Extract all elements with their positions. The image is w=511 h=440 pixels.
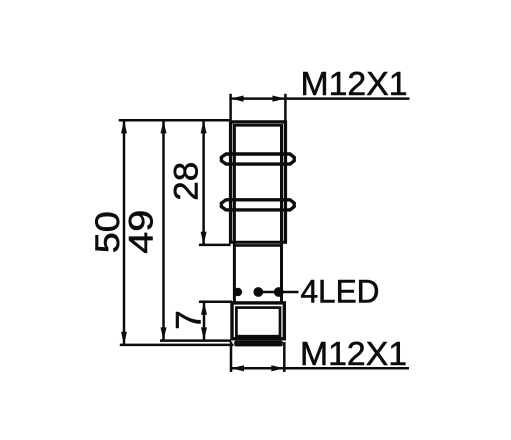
svg-text:M12X1: M12X1	[301, 65, 408, 102]
top dim arrow left	[231, 96, 244, 102]
lock nut 2	[221, 200, 294, 210]
top width dimension extension line left	[229, 94, 232, 121]
connector end cap (filled)	[234, 341, 283, 347]
bottom width dimension line with leader to M12X1	[231, 367, 409, 370]
LED dot left	[234, 288, 242, 296]
svg-text:49: 49	[123, 210, 161, 254]
dimension line 50	[123, 120, 126, 345]
dimension line 7	[203, 302, 206, 341]
bottom extension line for 28	[199, 244, 231, 247]
dimension line 28	[202, 120, 205, 245]
barrel outer right line	[284, 120, 287, 243]
barrel outer left line	[229, 120, 232, 243]
svg-text:28: 28	[168, 162, 206, 201]
4LED leader line	[258, 291, 298, 293]
thread end line	[229, 241, 287, 244]
49 arrow up	[161, 120, 167, 133]
top extension line for 50 49 28	[119, 119, 231, 122]
connector hex outer box	[232, 303, 284, 339]
svg-text:4LED: 4LED	[301, 274, 380, 310]
7 arrow up	[201, 302, 207, 315]
lock nut 1	[221, 154, 294, 164]
bottom width dimension extension line right	[283, 342, 286, 372]
top width dimension extension line right	[284, 94, 287, 121]
svg-text:7: 7	[169, 310, 208, 329]
bottom dim arrow right	[271, 365, 284, 371]
connector hex inner box	[236, 308, 280, 337]
28 arrow down	[201, 232, 207, 245]
top extension line for 7	[199, 300, 232, 303]
svg-text:50: 50	[89, 211, 127, 253]
LED dot middle	[253, 287, 263, 297]
bottom dim arrow left	[231, 365, 244, 371]
bottom extension line for 50	[120, 344, 234, 347]
thread minor / body right line	[280, 124, 283, 304]
50 arrow down	[121, 332, 127, 345]
bottom width dimension extension line left	[230, 342, 233, 373]
barrel top chamfer line	[233, 124, 282, 127]
50 arrow up	[121, 120, 127, 133]
7 arrow down	[201, 327, 207, 340]
LED dot right	[274, 287, 284, 297]
svg-text:M12X1: M12X1	[300, 335, 407, 372]
49 arrow down	[161, 327, 167, 340]
thread runout line	[233, 244, 283, 247]
barrel top edge	[229, 120, 287, 123]
top dim arrow right	[272, 96, 285, 102]
28 arrow up	[201, 120, 207, 133]
top width dimension line with leader to M12X1	[231, 97, 410, 100]
dimension line 49	[162, 120, 165, 340]
thread minor / body left line	[233, 124, 236, 304]
bottom extension line for 49 and 7	[160, 339, 231, 342]
